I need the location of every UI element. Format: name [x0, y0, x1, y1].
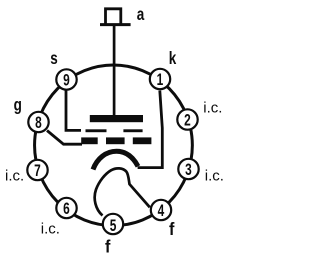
svg-text:i.c.: i.c. — [41, 220, 60, 237]
svg-text:i.c.: i.c. — [203, 100, 222, 117]
cathode k (thick arc) — [93, 151, 138, 169]
svg-text:i.c.: i.c. — [205, 167, 224, 184]
svg-text:i.c.: i.c. — [5, 167, 24, 184]
svg-text:2: 2 — [184, 112, 191, 131]
svg-text:s: s — [50, 49, 58, 68]
control grid g (thick dashed) — [81, 137, 98, 144]
pin 8 — [28, 112, 48, 133]
svg-text:8: 8 — [35, 114, 42, 133]
pin 9 — [56, 69, 76, 90]
wire pin9 to screen grid — [65, 91, 81, 131]
pin 5 — [103, 214, 123, 236]
anode plate bar — [90, 115, 143, 122]
svg-text:g: g — [14, 96, 22, 115]
svg-text:6: 6 — [63, 200, 70, 219]
heater f (loop) — [95, 168, 150, 215]
svg-text:f: f — [169, 219, 175, 239]
wire pin8 to control grid — [47, 131, 82, 145]
pin 6 — [56, 198, 76, 219]
svg-text:3: 3 — [185, 161, 192, 180]
anode lead wire — [113, 26, 116, 116]
pin 7 — [27, 160, 47, 181]
screen grid s (thin dashed) — [86, 129, 107, 132]
tube envelope circle — [35, 65, 193, 226]
pin 1 — [150, 69, 170, 90]
wire pin1 to cathode — [138, 91, 163, 168]
top cap base line — [100, 23, 131, 26]
pin 2 — [177, 109, 197, 130]
pin 3 — [178, 159, 198, 180]
svg-text:7: 7 — [34, 162, 41, 181]
svg-text:4: 4 — [158, 202, 165, 221]
svg-text:k: k — [169, 49, 177, 68]
svg-text:9: 9 — [63, 72, 70, 91]
svg-text:a: a — [137, 5, 145, 24]
svg-text:f: f — [105, 237, 111, 257]
top cap square (anode a) — [106, 9, 121, 24]
pin 4 — [151, 200, 171, 221]
svg-text:5: 5 — [110, 217, 117, 236]
svg-text:1: 1 — [157, 71, 164, 90]
